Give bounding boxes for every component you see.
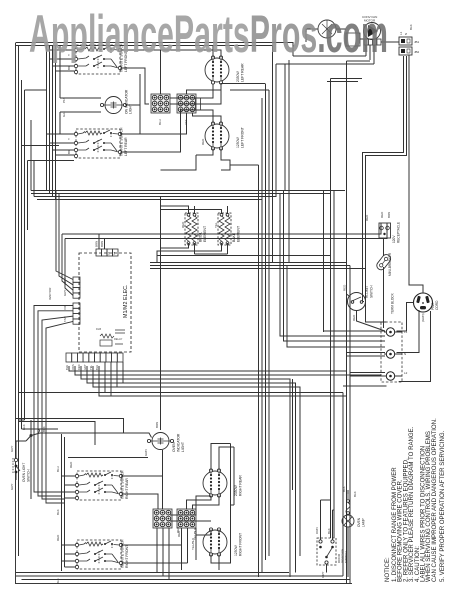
wire fan from board bottom 4 xyxy=(87,366,296,573)
on indicator light 1 xyxy=(100,97,126,114)
wire vertical bundle A4 xyxy=(268,90,270,556)
wire receptacle to breaker xyxy=(383,239,385,256)
svg-text:V10: V10 xyxy=(184,119,188,125)
wires from P3 up to oven bus xyxy=(99,234,105,249)
svg-text:LEFT REAR: LEFT REAR xyxy=(124,137,128,156)
svg-text:1: 1 xyxy=(108,252,110,256)
svg-text:SWITCH: SWITCH xyxy=(344,551,348,563)
junction box JB1 xyxy=(399,37,412,45)
hi-limit switch xyxy=(348,293,366,311)
wires element loops top xyxy=(161,46,270,171)
junction box JB2 xyxy=(399,47,412,55)
wire vertical bundle C xyxy=(292,379,294,490)
wire breaker to term block xyxy=(383,267,385,328)
svg-text:L2: L2 xyxy=(404,371,408,375)
svg-text:GRY: GRY xyxy=(10,446,14,452)
watermark AppliancePartsPros.com xyxy=(29,5,388,64)
wire stubs switch SW1 terminals xyxy=(47,46,187,155)
label BRN pins xyxy=(95,241,116,256)
wire fan from board bottom 2 xyxy=(75,366,381,375)
label infinite switch right front xyxy=(121,539,130,568)
svg-text:CORD: CORD xyxy=(435,300,439,310)
label oven lamp xyxy=(357,517,366,527)
labels term block posts xyxy=(404,330,408,375)
wire fan from board bottom 5 xyxy=(93,366,300,556)
wire bottom bus 3 xyxy=(22,579,351,581)
svg-text:1250W: 1250W xyxy=(234,544,238,556)
internal board marks xyxy=(100,330,125,346)
connector block CB2 xyxy=(177,94,196,113)
svg-text:AppliancePartsPros.com: AppliancePartsPros.com xyxy=(29,5,388,64)
oven light switch xyxy=(13,452,20,480)
frame border xyxy=(16,43,353,585)
svg-text:YEL/BLK: YEL/BLK xyxy=(191,538,195,550)
svg-text:BROIL: BROIL xyxy=(199,232,203,242)
wires bottom-left routing xyxy=(16,80,152,571)
wire bottom bus 1 xyxy=(16,572,289,574)
terminal block dashed box xyxy=(381,322,402,382)
connector row under fan xyxy=(364,39,381,45)
svg-text:N: N xyxy=(404,33,408,35)
wire horizontal bundle mid 3 xyxy=(150,268,366,270)
svg-text:RELAY: RELAY xyxy=(114,337,123,341)
infinite switch left rear SW2 xyxy=(74,129,121,158)
svg-text:ORN: ORN xyxy=(71,364,75,370)
svg-text:IGNITOR: IGNITOR xyxy=(48,287,52,300)
svg-text:RIGHT REAR: RIGHT REAR xyxy=(125,478,129,499)
wire vertical bundle A2 xyxy=(261,98,263,572)
infinite switch right rear SW3 xyxy=(75,471,122,500)
wire L1 top run xyxy=(16,46,273,263)
surface element right front E4 xyxy=(203,528,227,556)
svg-text:P16: P16 xyxy=(62,97,66,103)
svg-text:L1: L1 xyxy=(404,330,408,334)
svg-text:LAMP: LAMP xyxy=(362,518,366,527)
connector P2 left pin column xyxy=(73,303,80,324)
wires broil/bake hookup xyxy=(157,206,228,262)
svg-text:BLU: BLU xyxy=(158,119,162,125)
wire vertical bundle E xyxy=(324,61,351,584)
svg-text:SWITCH: SWITCH xyxy=(370,285,374,298)
wire mid horizontal bus 1 xyxy=(31,190,345,192)
svg-text:GRY: GRY xyxy=(83,364,87,370)
svg-text:BLK: BLK xyxy=(409,24,413,30)
svg-text:BK: BK xyxy=(67,150,71,154)
svg-text:TAN: TAN xyxy=(63,316,67,322)
svg-text:(GRN): (GRN) xyxy=(421,313,425,322)
wire labels top-left xyxy=(62,54,71,154)
svg-text:INFINITE SWITCH: INFINITE SWITCH xyxy=(121,539,125,568)
svg-text:RED: RED xyxy=(352,314,356,321)
internal tiny text xyxy=(96,327,123,341)
label element E4 xyxy=(234,533,243,556)
label pwr supply top right xyxy=(399,24,413,35)
svg-text:BLK: BLK xyxy=(353,491,357,497)
svg-text:JB1: JB1 xyxy=(414,40,420,44)
wires P2 fan down to bottom-left xyxy=(34,306,73,504)
wires term block feeds xyxy=(324,331,387,386)
infinite switch left front SW1 xyxy=(74,45,121,74)
svg-text:RECEPTACLE: RECEPTACLE xyxy=(397,222,401,243)
labels bottom wires xyxy=(176,526,195,550)
labels RED hi-limit xyxy=(343,284,357,321)
label pwr cord xyxy=(431,300,439,310)
wires door switch hookup xyxy=(321,500,335,573)
wire lower bus 1 xyxy=(19,392,344,394)
power cord plug xyxy=(414,293,433,312)
label RED near E2 xyxy=(201,138,205,145)
svg-text:RED: RED xyxy=(343,284,347,291)
wire stubs SW3 xyxy=(62,476,163,509)
svg-text:BRN: BRN xyxy=(155,422,159,428)
svg-text:GRY: GRY xyxy=(63,278,67,284)
label BLU under CB1 xyxy=(158,119,188,125)
wire lower bus 2 xyxy=(99,366,347,396)
svg-text:RED: RED xyxy=(69,461,73,468)
wires power cord leads xyxy=(397,55,431,382)
svg-text:BAKE: BAKE xyxy=(232,232,236,242)
label infinite switch left front xyxy=(120,43,129,72)
svg-text:TERM BLOCK: TERM BLOCK xyxy=(391,292,395,314)
svg-text:NOTICE:: NOTICE: xyxy=(384,557,391,582)
svg-text:BLU: BLU xyxy=(95,365,99,370)
svg-text:RED: RED xyxy=(176,526,180,533)
connector block CB3 xyxy=(153,509,172,528)
labels near thermal fuse xyxy=(342,486,357,497)
convection fan motor circle xyxy=(364,23,381,40)
bake element xyxy=(218,213,231,245)
svg-text:RED: RED xyxy=(181,221,185,228)
svg-text:INDICATOR: INDICATOR xyxy=(177,433,181,452)
label hi-limit switch xyxy=(365,285,374,298)
label RED under CB4 xyxy=(177,528,197,540)
wire mid bundle line 4 xyxy=(157,255,331,257)
svg-text:OVEN: OVEN xyxy=(172,442,176,452)
label 120V receptacle xyxy=(392,222,401,243)
wire mid horizontal bus 4 xyxy=(37,98,262,200)
label infinite switch left rear xyxy=(120,127,129,156)
label on indicator light 1 xyxy=(125,89,133,114)
door position switch dashed box xyxy=(317,538,336,565)
notice text (rotated) xyxy=(384,418,446,582)
wire left-edge hook upper xyxy=(19,90,75,420)
svg-text:YEL: YEL xyxy=(214,222,218,228)
svg-text:L1: L1 xyxy=(399,31,403,35)
svg-text:HI-LIMIT: HI-LIMIT xyxy=(365,286,369,298)
label oven light switch xyxy=(22,463,31,482)
wire P4 pin drops xyxy=(105,362,300,396)
svg-text:LEFT FRONT: LEFT FRONT xyxy=(241,127,245,148)
labels SW3 wires xyxy=(56,461,73,515)
wire mid horizontal bus 2 xyxy=(31,193,331,195)
label element E1 xyxy=(236,63,245,82)
label conv fan motor xyxy=(362,15,377,23)
svg-text:RED: RED xyxy=(77,364,81,370)
svg-text:ELEMENT: ELEMENT xyxy=(237,226,241,242)
wires P1 fan up to buses xyxy=(56,191,73,296)
mini-breaker xyxy=(375,253,392,272)
connector block CB1 xyxy=(151,94,170,113)
surface element left rear E1 xyxy=(205,56,229,84)
svg-text:GRY: GRY xyxy=(321,572,325,578)
svg-text:RED: RED xyxy=(56,534,60,541)
svg-text:INFINITE SWITCH: INFINITE SWITCH xyxy=(121,470,125,499)
svg-text:Y: Y xyxy=(67,138,71,140)
svg-text:BK: BK xyxy=(67,66,71,70)
wire vertical bundle A3 xyxy=(265,84,267,560)
svg-text:JB2: JB2 xyxy=(414,50,420,54)
wire horizontal bundle mid 2 xyxy=(150,265,350,267)
svg-text:GRY: GRY xyxy=(63,290,67,296)
wire mid horizontal bus 3 xyxy=(34,84,276,197)
wires fan from P1/P2 xyxy=(34,191,73,504)
label on indicator light 2 xyxy=(172,433,185,452)
svg-text:BLU: BLU xyxy=(56,466,60,472)
svg-text:RED: RED xyxy=(365,214,369,221)
svg-text:RIGHT REAR: RIGHT REAR xyxy=(239,475,243,496)
svg-text:BLK: BLK xyxy=(56,578,60,584)
wire left feed bundle to switches xyxy=(47,46,56,200)
wire fan from board bottom 1 xyxy=(69,366,347,371)
svg-text:1250W: 1250W xyxy=(236,136,240,148)
wire center vertical xyxy=(160,197,162,430)
svg-text:MINI-BREAKER: MINI-BREAKER xyxy=(388,252,392,276)
svg-text:ORN: ORN xyxy=(315,527,319,534)
labels under P4 xyxy=(65,364,99,370)
small relay box xyxy=(346,33,360,46)
label broil element xyxy=(199,226,208,242)
svg-text:BRN: BRN xyxy=(100,241,104,247)
svg-text:DLB: DLB xyxy=(96,327,101,331)
resistor box near element E1 xyxy=(196,98,201,110)
svg-text:120V: 120V xyxy=(392,235,396,243)
connector block CB4 xyxy=(177,509,196,528)
junction node bottom-left xyxy=(16,420,40,452)
svg-text:5. VERIFY PROPER OPERATION AFT: 5. VERIFY PROPER OPERATION AFTER SERVICI… xyxy=(439,430,446,582)
svg-text:SWITCH: SWITCH xyxy=(27,469,31,482)
wires bottom element loops xyxy=(163,444,235,571)
wire stubs SW4 xyxy=(62,545,188,567)
surface element left front E2 xyxy=(205,122,229,150)
label bake element xyxy=(232,226,241,242)
wire CB3 pin drops xyxy=(157,528,169,580)
labels GRY oven light switch xyxy=(10,446,14,490)
wire labels broil/bake xyxy=(181,221,218,228)
svg-text:YEL: YEL xyxy=(89,365,93,370)
label element E3 xyxy=(234,475,243,496)
svg-text:2: 2 xyxy=(114,252,116,256)
svg-text:RIGHT FRONT: RIGHT FRONT xyxy=(125,545,129,568)
svg-text:N: N xyxy=(404,352,406,356)
label BLK near junction xyxy=(22,424,46,432)
label infinite switch right rear xyxy=(121,470,130,499)
label term block xyxy=(391,292,395,314)
wire vertical bundle D xyxy=(331,79,335,539)
control board M1/M2 ELEC dashed box xyxy=(79,253,131,352)
svg-text:CAN CAUSE IMPROPER AND DANGERO: CAN CAUSE IMPROPER AND DANGEROUS OPERATI… xyxy=(431,418,438,582)
wire left edge parallel xyxy=(18,46,20,556)
svg-text:BRN: BRN xyxy=(95,241,99,247)
svg-text:BLK: BLK xyxy=(56,509,60,515)
svg-text:2350W: 2350W xyxy=(236,70,240,82)
wire L2 top run xyxy=(16,43,293,57)
svg-text:BLK: BLK xyxy=(342,486,346,492)
terminal L2 xyxy=(384,372,402,380)
svg-text:RIGHT FRONT: RIGHT FRONT xyxy=(239,533,243,556)
svg-text:VIO: VIO xyxy=(63,304,67,310)
wire mid verticals to term block xyxy=(280,191,385,348)
svg-text:GRN: GRN xyxy=(144,449,148,456)
svg-text:2350W: 2350W xyxy=(234,484,238,496)
svg-text:BRN: BRN xyxy=(387,212,391,218)
connector P4 bottom pin row xyxy=(66,353,123,362)
svg-text:RED: RED xyxy=(201,138,205,145)
surface element right rear E3 xyxy=(203,469,227,497)
wire fan from board bottom 3 xyxy=(81,366,290,577)
svg-text:OVEN LIGHT: OVEN LIGHT xyxy=(22,463,26,482)
wire oven feed bus 1 xyxy=(62,223,381,234)
svg-text:BLK: BLK xyxy=(65,365,69,370)
svg-text:LEFT REAR: LEFT REAR xyxy=(241,63,245,82)
wire oven feed bus 2 xyxy=(65,223,387,239)
svg-text:GRY: GRY xyxy=(10,484,14,490)
wire bottom bus 2 xyxy=(16,575,343,577)
broil element xyxy=(185,213,198,245)
on indicator light 2 xyxy=(147,433,173,450)
terminal L1 xyxy=(384,328,402,336)
wires hi-limit hookup xyxy=(347,294,386,331)
labels SW4 wires xyxy=(56,534,60,584)
oven lamp xyxy=(342,515,354,527)
labels RED BRN above receptacle xyxy=(365,211,391,221)
svg-text:ELEMENT: ELEMENT xyxy=(203,226,207,242)
wires top-right hookup xyxy=(276,29,399,262)
label door position switch xyxy=(337,549,348,563)
svg-text:G24: G24 xyxy=(62,111,66,117)
door position switch contacts xyxy=(319,540,334,564)
wire vertical bundle A1 xyxy=(258,165,260,577)
svg-text:BLK: BLK xyxy=(327,528,331,534)
labels GRY VIO near P1/P2 xyxy=(48,278,67,322)
connector P3 top pin row xyxy=(96,249,118,256)
svg-text:OVEN: OVEN xyxy=(357,517,361,527)
label element E2 xyxy=(236,127,245,148)
120V receptacle box xyxy=(379,223,391,238)
svg-text:RED: RED xyxy=(380,211,384,218)
wire bus corners up-left xyxy=(31,120,34,197)
thermal fuse above oven lamp xyxy=(346,494,350,515)
wire horizontal bundle mid 1 xyxy=(150,262,347,264)
wire oven lamp drop xyxy=(347,490,349,577)
svg-text:LIGHT: LIGHT xyxy=(181,442,185,452)
infinite switch right front SW4 xyxy=(75,540,122,569)
terminal N xyxy=(384,350,402,358)
svg-text:M1/M2 ELEC.: M1/M2 ELEC. xyxy=(123,284,129,318)
labels door switch wires xyxy=(315,527,331,578)
connector P1 left pin column xyxy=(73,277,80,298)
wire right drop from junction boxes xyxy=(363,56,407,322)
oven vent fan motor circle xyxy=(318,20,336,38)
